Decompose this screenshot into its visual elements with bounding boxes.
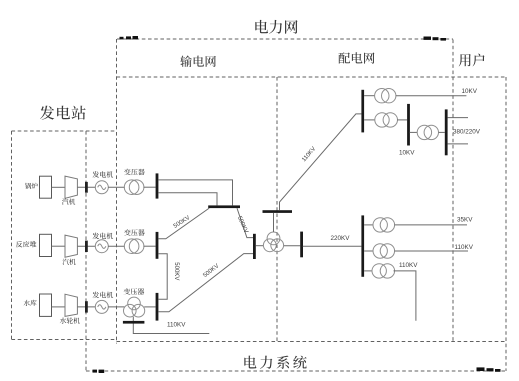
wire generator to transformer row3 [108, 306, 124, 308]
steam turbine row1 [65, 176, 77, 198]
label: power system (dian-li-xi-tong) [244, 356, 306, 369]
ink marks on power-grid top-left corner [120, 36, 139, 39]
transformer T8 circle right [380, 218, 394, 232]
water turbine row3 [65, 294, 77, 316]
boiler B1 box [40, 176, 52, 198]
net boundary: power-system left edge (dashed) [85, 131, 87, 371]
transformer T5 circle left [375, 89, 389, 103]
label: generator (fa-dian-ji) row3 [93, 292, 114, 299]
svg-text:500KV: 500KV [202, 263, 220, 279]
svg-text:110KV: 110KV [455, 244, 474, 251]
wire BB3 to 3-winding transformer T4 [256, 245, 264, 247]
wire reactor to turbine row2 [52, 245, 66, 247]
net boundary: transmission/distribution divider (dashed) [276, 77, 278, 342]
net boundary: power-plant box top edge (dashed) [12, 130, 117, 132]
wire T6 to busbar BB [397, 119, 407, 121]
wire 35KV feeder [395, 224, 468, 226]
svg-text:110KV: 110KV [399, 262, 418, 269]
transformer T1 circle right [129, 180, 144, 195]
net boundary: power-system right edge (dashed) [505, 77, 507, 371]
label: users (yong-hu) [459, 54, 485, 67]
wire BB to transformer T7 [410, 131, 418, 133]
transformer T4 bottom-right circle [271, 239, 284, 252]
transformer T2 circle right [129, 239, 144, 254]
label: transformer (bian-ya-qi) row3 [124, 288, 145, 295]
wire 500KV tie BB2 to BB4 [158, 254, 167, 299]
wire turbine to generator row1 [77, 186, 95, 188]
net boundary: power-grid right edge (dashed) [452, 40, 454, 342]
net boundary: grid bottom edge (dashed) [117, 341, 507, 343]
generator G1 circle [95, 181, 108, 194]
wire 10KV feeder to users [396, 95, 467, 97]
transformer T9 circle left [373, 244, 387, 258]
net boundary: power-plant box left edge (dashed) [11, 131, 13, 340]
wire generator to transformer row1 [108, 186, 125, 188]
busbar HUB (horizontal 500KV hub) [208, 205, 240, 208]
wire BigB to transformer T8 [364, 224, 373, 226]
wire 110KV feeder to users [395, 250, 469, 252]
net boundary: power-grid top edge (dashed) [117, 38, 453, 40]
ink marks on power-grid top-right corner [424, 37, 447, 41]
wire H110 down to T4 top winding [273, 213, 275, 232]
reservoir box [40, 294, 52, 316]
generator G2 circle [95, 240, 108, 253]
wire turbine to generator row2 [77, 245, 95, 247]
svg-text:220KV: 220KV [331, 235, 351, 242]
transformer T8 circle left [373, 218, 387, 232]
wire BB1 lower feeder to hub bus [158, 193, 217, 206]
label: steam turbine (qi-ji) row2 [62, 259, 75, 265]
label: transmission network (shu-dian-wang) [180, 56, 216, 67]
wire BigB to transformer T10 [364, 270, 372, 272]
transformer T6 circle right [383, 113, 397, 127]
label: water turbine (shui-lun-ji) [60, 317, 80, 323]
shaft coupling row3 [85, 301, 88, 312]
transformer T10 circle left [372, 264, 386, 278]
transformer T7 circle right [424, 125, 438, 139]
label: transformer (bian-ya-qi) row1 [124, 169, 145, 176]
transformer T4 (3-winding) top circle [267, 232, 280, 245]
wire 380/220V feeder lower [447, 143, 468, 145]
reactor box [40, 234, 52, 256]
label: generator (fa-dian-ji) row2 [93, 233, 114, 240]
transformer T10 circle right [380, 264, 394, 278]
busbar BB1 (500KV plant bus row1) [156, 173, 159, 198]
wire BB1 upper feeder to hub bus [158, 180, 232, 206]
transformer T3 bottom-left circle [124, 304, 137, 317]
shaft coupling row1 [85, 182, 88, 193]
wire turbine to generator row3 [77, 306, 95, 308]
wire transformer to busbar row3 [144, 306, 155, 308]
busbar BigB (220KV distribution bus) [361, 215, 364, 276]
ink marks on power-system bottom-left corner [93, 370, 105, 373]
wire 380/220V feeder upper [447, 117, 468, 119]
transformer T2 circle left [124, 239, 139, 254]
svg-text:35KV: 35KV [457, 217, 473, 224]
busbar BB3 (500KV receiving bus) [253, 234, 256, 259]
transformer T7 circle left [417, 125, 431, 139]
wire T7 to busbar BC [439, 131, 445, 133]
svg-text:380/220V: 380/220V [453, 129, 481, 136]
wire T3 tertiary drop to 110KV feeder [133, 317, 209, 334]
svg-text:110KV: 110KV [167, 321, 186, 328]
transformer T9 circle right [380, 244, 394, 258]
wire transformer to busbar row2 [144, 245, 156, 247]
label: transformer (bian-ya-qi) row2 [124, 229, 145, 236]
net boundary: power-system bottom edge (dashed) [86, 370, 506, 372]
generator G1 sine mark [98, 185, 106, 189]
wire 500KV line hub to BB2 [158, 208, 209, 239]
svg-text:500KV: 500KV [173, 262, 179, 280]
wire 110KV line H110 to distribution bus BA [280, 114, 362, 210]
label: generator (fa-dian-ji) row1 [93, 171, 114, 178]
wire T4 to busbar BR [284, 245, 300, 247]
net boundary: power-plant box bottom edge (dashed) [12, 339, 117, 341]
wire boiler to turbine row1 [52, 186, 66, 188]
svg-text:500KV: 500KV [236, 215, 249, 234]
wire 110KV feeder turning down [394, 271, 416, 321]
label: power plant (fa-dian-zhan) [40, 106, 86, 120]
steam turbine row2 [65, 235, 77, 257]
generator G3 circle [95, 300, 108, 313]
wire BA to transformer T5 [364, 95, 375, 97]
wire 500KV line hub to BB3 [237, 208, 253, 238]
busbar BB4 (500KV plant bus row3) [156, 293, 159, 321]
busbar BB2 (500KV plant bus row2) [156, 232, 159, 259]
wire generator to transformer row2 [108, 245, 125, 247]
wire BA to transformer T6 [364, 119, 375, 121]
busbar BA (110KV distribution bus) [361, 90, 364, 133]
label: power grid (dian-li-wang) [255, 20, 297, 34]
wire BigB to transformer T9 [364, 250, 373, 252]
svg-text:10KV: 10KV [399, 150, 415, 157]
transformer T4 bottom-left circle [263, 239, 276, 252]
svg-text:10KV: 10KV [462, 88, 478, 95]
transformer T6 circle left [375, 113, 389, 127]
busbar BB (10KV bus) [407, 104, 410, 146]
generator G2 sine mark [98, 244, 106, 248]
net boundary: power-grid/transmission left edge (dashed) [116, 39, 118, 344]
shaft coupling row2 [85, 241, 88, 252]
label: reactor (fan-ying-dui) [16, 241, 37, 248]
busbar BC (380/220V bus) [445, 109, 448, 155]
transformer T1 circle left [124, 180, 139, 195]
net boundary: transmission/distribution top edge (dashed) [117, 76, 507, 78]
wire reservoir to turbine row3 [52, 306, 66, 308]
generator G3 sine mark [98, 305, 106, 309]
wire transformer to busbar row1 [144, 186, 156, 188]
busbar H110 (110KV hub above T4) [263, 210, 293, 213]
label: steam turbine (qi-ji) row1 [62, 198, 75, 204]
label: reservoir (shui-ku) [24, 300, 37, 306]
transformer T3 bottom-right circle [132, 304, 145, 317]
wire 220KV line BR to BigBus [303, 245, 362, 247]
label: distribution network (pei-dian-wang) [338, 52, 374, 63]
label: boiler (guo-lu) [25, 183, 38, 189]
busbar 110KV plant tertiary bar [123, 321, 144, 324]
transformer T5 circle right [382, 89, 396, 103]
wire 500KV line BB4 to BB3 [158, 254, 253, 312]
transformer T3 (3-winding) top circle [128, 297, 141, 310]
ink marks on power-system bottom-right corner [477, 367, 501, 371]
busbar BR (220KV bus) [300, 232, 303, 258]
